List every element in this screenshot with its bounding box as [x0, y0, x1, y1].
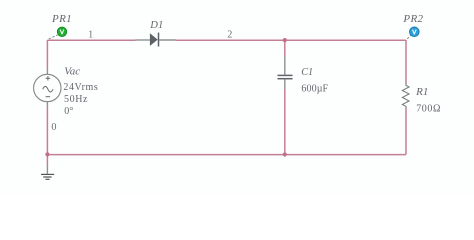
svg-text:700Ω: 700Ω [416, 104, 441, 115]
svg-text:D1: D1 [149, 20, 163, 31]
svg-text:1: 1 [88, 29, 93, 40]
svg-text:50Hz: 50Hz [64, 94, 88, 105]
svg-text:2: 2 [227, 30, 232, 41]
svg-text:PR1: PR1 [51, 13, 72, 25]
svg-text:R1: R1 [415, 86, 428, 98]
svg-text:Vac: Vac [64, 66, 80, 78]
svg-text:PR2: PR2 [402, 13, 423, 25]
svg-text:600µF: 600µF [301, 83, 328, 94]
svg-text:C1: C1 [301, 67, 313, 78]
svg-text:0°: 0° [64, 106, 73, 117]
svg-text:0: 0 [51, 122, 56, 133]
svg-text:24Vrms: 24Vrms [63, 82, 98, 93]
